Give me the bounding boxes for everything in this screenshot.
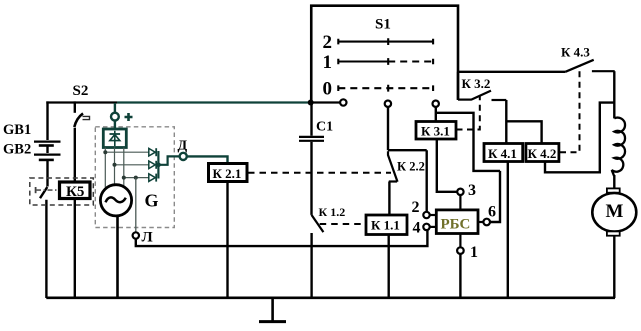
node junction S1 left	[308, 100, 314, 106]
terminal RBS-2 circle	[423, 212, 429, 218]
svg-text:4: 4	[413, 220, 421, 237]
wire K4.3 to coil	[613, 71, 615, 118]
svg-text:Д: Д	[178, 139, 188, 154]
svg-text:1: 1	[323, 52, 333, 73]
wire + to rectifier	[114, 121, 116, 130]
switch S1 box	[311, 6, 458, 102]
relay K5 box	[60, 182, 91, 199]
wire top bus right (S1 junction to terminal 0)	[311, 101, 340, 103]
capacitor C1	[299, 137, 324, 141]
terminal L circle	[133, 232, 139, 238]
terminal + circle	[111, 113, 119, 121]
wire stator phase 1	[105, 148, 148, 188]
svg-text:К5: К5	[66, 184, 84, 200]
svg-text:6: 6	[488, 204, 496, 221]
node phase dots	[103, 150, 138, 179]
svg-text:М: М	[606, 201, 624, 222]
wire C1 riser top	[310, 103, 312, 136]
svg-text:1: 1	[470, 244, 478, 261]
relay K1.1 box	[366, 215, 407, 235]
terminal RBS-6 circle	[483, 219, 490, 226]
contact K2.2	[388, 151, 398, 215]
terminal D circle	[180, 153, 187, 160]
wire coil to motor	[613, 175, 615, 188]
svg-text:К 1.2: К 1.2	[319, 205, 346, 219]
terminal S1-0 circle	[340, 99, 346, 105]
diode VD1	[149, 148, 156, 156]
generator wave symbol	[106, 197, 126, 202]
contact K3.2	[458, 91, 506, 100]
switch S2 blade	[74, 113, 83, 127]
motor brush bottom	[607, 231, 620, 235]
wire battery riser bottom	[45, 200, 47, 298]
relay K2.1 box	[209, 164, 248, 182]
wire RBS-2 stub	[430, 214, 437, 216]
wire S2 riser top	[74, 101, 76, 112]
mechanical link K3 dashed	[457, 95, 480, 130]
terminal RBS-1 circle	[457, 247, 464, 254]
S1 row 2	[323, 32, 434, 53]
wire top bus left (battery to + junction)	[46, 101, 117, 103]
wire generator to bottom bus	[116, 216, 119, 298]
svg-text:К 3.1: К 3.1	[421, 124, 450, 139]
inductor field coil	[612, 118, 625, 176]
svg-text:0: 0	[323, 79, 333, 100]
svg-text:К 4.2: К 4.2	[528, 146, 557, 161]
S1 row 1	[323, 52, 434, 73]
wire K1.1 to bottom bus	[388, 235, 390, 298]
wire K2.1 to bottom bus	[226, 182, 228, 299]
motor brush top	[607, 188, 620, 192]
wire D to K2.1	[187, 156, 228, 163]
svg-text:G: G	[145, 191, 159, 211]
svg-text:GB2: GB2	[3, 142, 31, 158]
relay K4.1 box	[484, 144, 523, 162]
wire battery riser top	[46, 101, 48, 140]
label +	[125, 113, 133, 121]
svg-text:Л: Л	[142, 230, 153, 246]
mechanical link K5	[36, 187, 59, 193]
wire battery mid	[46, 146, 48, 153]
dashed box K5 unit	[30, 178, 94, 205]
wire + to bus	[114, 103, 116, 113]
mechanical link K2 dashed	[248, 172, 391, 174]
diode symbol in regulator	[110, 131, 121, 146]
wire L bus	[136, 230, 428, 247]
contact K4.3	[565, 60, 614, 72]
wire S1 top to K4.3	[458, 71, 565, 73]
mechanical link K1 dashed	[320, 223, 366, 225]
terminal S1-1 circle	[385, 101, 391, 107]
generator G circle	[100, 185, 131, 216]
svg-text:К 1.1: К 1.1	[371, 218, 400, 233]
wire K3.2 to K4 coils	[506, 100, 541, 144]
svg-text:К 3.2: К 3.2	[462, 76, 491, 91]
svg-text:3: 3	[468, 182, 476, 199]
terminal RBS-3 circle	[457, 189, 463, 195]
svg-text:РБС: РБС	[441, 217, 471, 233]
wire bottom bus	[46, 296, 615, 299]
wire RBS-6 to S1 terminal 2 net	[436, 107, 500, 222]
wire K4.2 to field coil net	[545, 103, 614, 173]
svg-text:2: 2	[323, 32, 333, 53]
battery GB1	[34, 142, 61, 146]
wire motor to bottom bus	[613, 236, 615, 298]
wire RBS-1 to box	[459, 234, 461, 248]
wire S2 to K5 coil	[74, 128, 76, 182]
switch S2 actuator	[83, 116, 90, 119]
wire RBS-4 stub	[430, 226, 437, 228]
S1 row 0	[323, 79, 434, 100]
wire K3.1 to RBS-3	[437, 139, 457, 192]
terminal RBS-4 circle	[423, 224, 429, 230]
regulator box	[103, 129, 126, 148]
relay K4.2 box	[526, 144, 559, 162]
dashed box generator unit	[95, 127, 174, 228]
wire stator phase 3	[124, 148, 149, 188]
node rectifier output junction	[156, 162, 161, 167]
terminal S1-2 circle	[433, 101, 439, 107]
wire RBS-1 to bottom bus	[459, 254, 461, 298]
motor M	[592, 193, 636, 232]
wire L tap	[135, 178, 137, 233]
wire RBS-3 to box	[459, 195, 461, 210]
wire K1.2 lower to bus	[310, 233, 312, 298]
diode VD3	[149, 174, 156, 182]
wire K4.1 to bottom bus	[507, 162, 509, 299]
wire stator phase 2	[115, 148, 149, 187]
wire C1 to K1.2	[310, 142, 312, 215]
block RBS box	[436, 210, 478, 234]
wire RBS-6 stub	[478, 221, 483, 223]
battery GB2	[34, 155, 61, 160]
wire battery riser to K5 contact	[46, 161, 48, 187]
wire rectifier output to D	[158, 151, 179, 179]
svg-text:К 4.1: К 4.1	[488, 146, 517, 161]
svg-text:К 2.1: К 2.1	[213, 166, 242, 181]
svg-text:2: 2	[412, 199, 420, 216]
svg-text:GB1: GB1	[3, 122, 31, 138]
contact K1.2 blade	[312, 215, 324, 232]
wire S1 right edge to K3.2	[457, 72, 459, 100]
ground	[259, 298, 286, 322]
contact K5.1 blade	[40, 187, 47, 198]
svg-text:S1: S1	[375, 17, 391, 33]
svg-text:К 4.3: К 4.3	[561, 45, 590, 60]
diode VD2	[149, 161, 156, 169]
svg-text:S2: S2	[73, 83, 89, 99]
relay K3.1 box	[416, 122, 456, 140]
wire top bus middle (teal, + junction to S1 junction)	[117, 101, 311, 103]
svg-text:С1: С1	[316, 120, 333, 135]
wire K5 coil to bottom bus	[74, 199, 76, 298]
wire S1 terminal 1 riser	[388, 107, 427, 212]
svg-text:К 2.2: К 2.2	[397, 160, 425, 174]
mechanical link K4 dashed	[560, 66, 580, 152]
